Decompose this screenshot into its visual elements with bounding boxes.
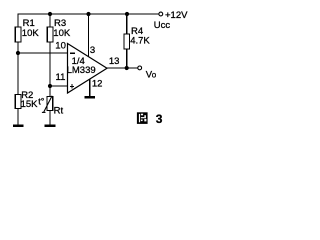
resistor R4 xyxy=(124,34,130,49)
node: top rail to R3 xyxy=(48,12,52,16)
node: top rail to pin 3 xyxy=(86,12,90,16)
node: R1-R2 junction to inverting input xyxy=(16,51,20,55)
wire: Rt upper lead xyxy=(49,86,51,97)
thermistor Rt diagonal arrow xyxy=(42,96,52,113)
ground (below Rt) xyxy=(45,125,56,127)
node: R3-Rt junction to non-inverting input xyxy=(48,84,52,88)
svg-text:15K: 15K xyxy=(21,99,39,110)
ground (below R2) xyxy=(13,125,24,127)
wire: pin 12 ground wire xyxy=(89,79,91,96)
terminal: +12V supply xyxy=(159,12,163,16)
wire: R3 upper lead xyxy=(49,13,51,27)
svg-text:4.7K: 4.7K xyxy=(130,36,150,47)
wire: pin 11 input wire xyxy=(50,85,68,87)
ground (pin 12) xyxy=(85,96,96,98)
svg-text:10K: 10K xyxy=(53,28,71,39)
svg-text:LM339: LM339 xyxy=(67,65,96,76)
terminal: Vo output xyxy=(138,66,142,70)
svg-text:Ucc: Ucc xyxy=(154,20,171,31)
wire: R1 upper lead xyxy=(17,13,19,27)
wire: pin 10 input wire xyxy=(18,52,68,54)
node: top rail to R4 xyxy=(125,12,129,16)
resistor R1 xyxy=(15,27,21,42)
svg-text:13: 13 xyxy=(109,56,120,67)
label 图 (figure) hand-drawn glyph xyxy=(137,112,148,124)
svg-text:10K: 10K xyxy=(22,28,40,39)
op-amp minus sign (pin 10 inverting input) xyxy=(70,52,75,54)
wire: R2 lower lead xyxy=(17,109,19,125)
svg-text:11: 11 xyxy=(56,72,66,83)
node: output to R4 xyxy=(125,66,129,70)
svg-text:o: o xyxy=(152,70,157,79)
svg-text:Rt: Rt xyxy=(54,105,64,116)
svg-text:t°: t° xyxy=(38,97,45,107)
wire: R3 down to Rt junction (crosses pin10 wire, no connection) xyxy=(49,42,51,86)
svg-text:3: 3 xyxy=(156,112,163,126)
op-amp plus sign (pin 11 non-inverting input) xyxy=(70,84,74,89)
wire: Rt lower lead xyxy=(49,111,51,125)
wire: pin 3 supply wire xyxy=(88,14,90,57)
thermistor Rt body xyxy=(47,97,53,111)
wire: R4 lower lead xyxy=(126,49,128,68)
op-amp U1 (1/4 LM339) triangle xyxy=(68,44,108,94)
wire: output pin 13 xyxy=(107,67,138,69)
label Vo xyxy=(146,69,157,80)
wire: +12V top supply rail xyxy=(17,13,158,15)
resistor R3 xyxy=(47,27,53,42)
resistor R2 xyxy=(15,95,21,109)
wire: R1 to R2 vertical xyxy=(17,42,19,95)
svg-text:3: 3 xyxy=(90,45,95,56)
svg-text:12: 12 xyxy=(92,79,103,90)
svg-text:10: 10 xyxy=(55,41,66,52)
wire: R4 upper lead xyxy=(126,13,128,34)
